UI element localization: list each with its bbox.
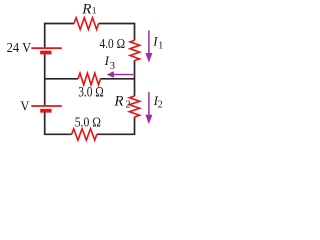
svg-text:2: 2 [158,100,163,111]
wire top wire right segment and top-right corner down to 4.0 ohm [99,24,135,41]
resistor 3.0 ohm zigzag [78,73,100,85]
wire top-left corner and top wire left segment [45,24,74,48]
svg-text:5.0 Ω: 5.0 Ω [75,116,101,131]
wire right vertical between 4.0 ohm and R2 [134,60,136,96]
svg-text:R: R [81,2,91,18]
wire middle branch right of 3.0 ohm [100,78,134,80]
battery V short plate [40,109,51,113]
resistor R2 zigzag [129,96,139,117]
svg-text:I: I [152,33,158,48]
resistor R1 zigzag [74,18,99,30]
resistor 4.0 ohm zigzag [130,40,140,60]
wire bottom wire right segment, bottom-right corner up to R2 [97,117,135,134]
svg-text:I: I [104,53,110,68]
current arrow I2 [145,92,152,124]
wire middle branch left of 3.0 ohm [45,78,78,80]
wire left vertical lower, bottom-left corner, bottom wire left segment [45,112,72,134]
svg-text:24 V: 24 V [7,41,32,56]
battery 24 V short plate [40,51,51,55]
svg-text:3: 3 [110,61,115,72]
svg-text:V: V [20,99,29,114]
wire left vertical between batteries [44,54,46,105]
current arrow I1 [145,31,152,63]
current arrow I3 [107,71,134,78]
battery V long plate [31,105,62,107]
svg-text:3.0 Ω: 3.0 Ω [78,85,104,101]
battery 24 V long plate [31,47,62,49]
resistor 5.0 ohm zigzag [72,129,97,141]
svg-text:1: 1 [92,6,97,16]
svg-text:4.0 Ω: 4.0 Ω [100,37,126,52]
svg-text:R: R [113,94,123,110]
svg-text:2: 2 [126,100,131,111]
svg-text:1: 1 [158,41,163,52]
